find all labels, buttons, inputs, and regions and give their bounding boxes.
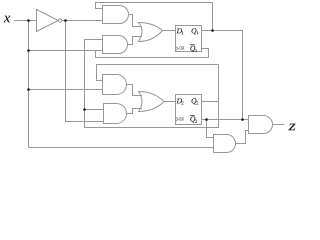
wire Q2 feedback loop <box>85 40 219 128</box>
flip-flop D2 box <box>176 95 202 125</box>
label CLK of D1 <box>179 46 180 49</box>
wire Q2 output <box>202 101 219 103</box>
wire Q1 output <box>202 31 243 120</box>
and-gate A6 output <box>249 116 273 134</box>
label D2 <box>177 98 182 103</box>
wire x to AND3 <box>29 89 103 91</box>
inverter U1 triangle <box>37 10 59 32</box>
label input x <box>4 16 10 23</box>
overline Q1bar <box>190 44 195 46</box>
flip-flop D1 clock wedge <box>176 47 179 51</box>
wire Q2 feedback to AND4 <box>85 109 104 111</box>
and-gate A1 <box>103 6 129 24</box>
and-gate A5 <box>214 135 236 153</box>
label CLK of D2 <box>179 117 180 120</box>
label D1 <box>177 28 182 33</box>
or-gate O1 <box>139 23 163 42</box>
flip-flop D1 box <box>176 26 202 52</box>
or-gate O2 <box>139 92 165 112</box>
overline Q2bar <box>190 115 195 117</box>
label Q1bar <box>190 46 195 52</box>
label Q1bar subscript <box>195 49 197 52</box>
wire Q2 feedback to AND3 <box>97 65 219 81</box>
flip-flop D2 clock wedge <box>176 117 179 121</box>
and-gate A4 <box>104 104 127 124</box>
junction dot Q2bar left <box>205 118 208 121</box>
wire Q2bar branch to AND5 <box>207 120 214 138</box>
junction dot input x <box>27 19 30 22</box>
label Q2 <box>192 98 197 104</box>
label output z <box>288 124 295 131</box>
label Q2 subscript <box>196 101 198 104</box>
and-gate A3 <box>103 75 127 95</box>
wire inverter output xbar to AND1 <box>62 20 103 22</box>
junction dot Q1 to AND6 <box>241 118 244 121</box>
wire Q1bar wraparound to AND2 <box>96 49 209 58</box>
and-gate A2 <box>103 36 128 54</box>
wire AND4 output to OR2 <box>127 109 142 114</box>
wire OR1 output to D1 <box>163 30 176 32</box>
label D1 subscript <box>182 31 184 34</box>
label D2 subscript <box>182 101 184 104</box>
junction dot Q1 <box>211 29 214 32</box>
wire x to AND2 <box>29 50 103 52</box>
junction dot xbar <box>64 19 67 22</box>
label Q2bar subscript <box>195 120 197 123</box>
label Q1 subscript <box>197 31 199 34</box>
junction dot Q2fb to AND4 <box>83 108 86 111</box>
wire AND6 output to z <box>273 124 285 126</box>
junction dot x to AND2 <box>27 49 30 52</box>
wire x lead-in <box>14 20 37 22</box>
wire AND5 output to AND6 <box>236 131 249 144</box>
wire AND3 output to OR2 <box>127 85 142 96</box>
label Q1 <box>192 28 197 34</box>
wire Q2bar output to AND6 <box>202 119 249 121</box>
wire x bottom to AND5 <box>29 147 214 149</box>
wire AND2 output to OR1 <box>128 37 142 45</box>
wire x vertical branch <box>28 21 30 148</box>
inverter U1 bubble <box>59 19 62 22</box>
wire xbar vertical to AND4 <box>66 21 104 122</box>
junction dot x to AND3 <box>27 88 30 91</box>
wire OR2 output to D2 <box>164 101 176 103</box>
label Q2bar <box>190 116 195 122</box>
wire Q1 top feedback to AND1 <box>96 3 213 31</box>
wire AND1 output to OR1 <box>129 15 142 27</box>
